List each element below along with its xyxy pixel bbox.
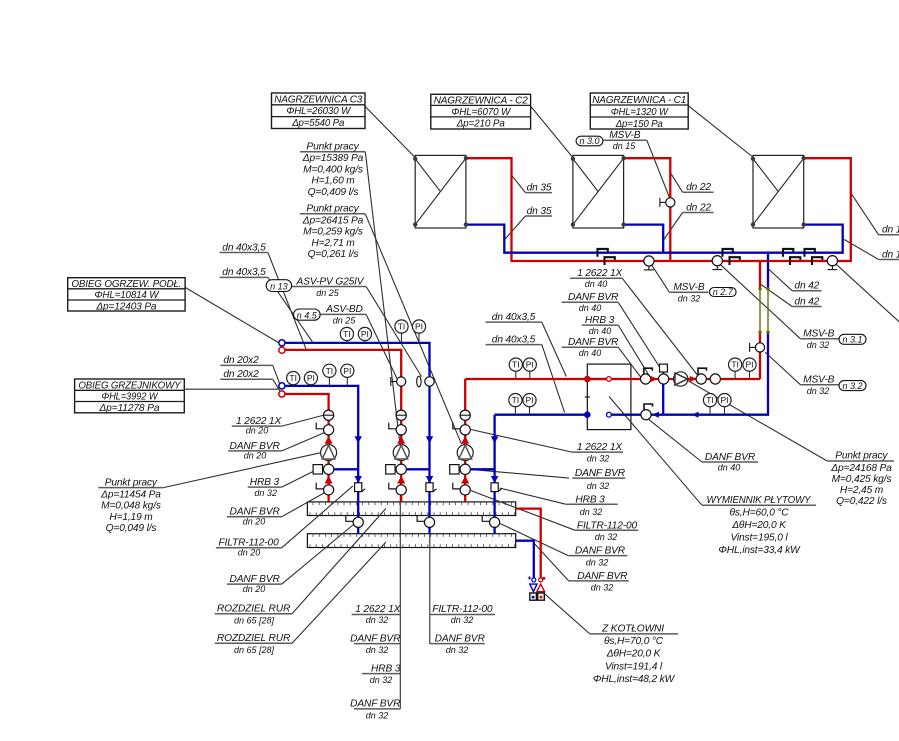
- svg-text:ASV-PV G25IV: ASV-PV G25IV: [296, 276, 365, 287]
- svg-text:DANF BVR: DANF BVR: [575, 546, 626, 557]
- svg-text:Vinst=195,0 l: Vinst=195,0 l: [730, 532, 788, 543]
- svg-text:DANF BVR: DANF BVR: [568, 292, 619, 303]
- svg-text:M=0,425 kg/s: M=0,425 kg/s: [832, 474, 892, 485]
- svg-text:ΦHL=6070 W: ΦHL=6070 W: [451, 107, 511, 118]
- svg-text:dn 40: dn 40: [585, 279, 608, 289]
- svg-text:Δp=26415 Pa: Δp=26415 Pa: [302, 215, 364, 226]
- svg-text:HRB 3: HRB 3: [575, 494, 605, 505]
- svg-text:n 3.0: n 3.0: [579, 136, 599, 146]
- svg-text:dn 20x2: dn 20x2: [223, 355, 259, 366]
- svg-text:dn 32: dn 32: [586, 558, 609, 568]
- svg-text:HRB 3: HRB 3: [250, 477, 280, 488]
- svg-text:dn 32: dn 32: [678, 293, 701, 303]
- svg-text:dn 20: dn 20: [243, 517, 266, 527]
- svg-text:dn 22: dn 22: [686, 202, 711, 213]
- svg-text:HRB 3: HRB 3: [371, 663, 401, 674]
- svg-text:dn 20: dn 20: [246, 426, 269, 436]
- svg-text:dn 40: dn 40: [718, 463, 741, 473]
- svg-text:Q=0,261 l/s: Q=0,261 l/s: [308, 249, 359, 260]
- svg-text:dn 32: dn 32: [366, 615, 389, 625]
- svg-text:dn 32: dn 32: [254, 488, 277, 498]
- svg-text:Δp=5540 Pa: Δp=5540 Pa: [291, 118, 344, 129]
- svg-text:DANF BVR: DANF BVR: [577, 571, 628, 582]
- svg-text:M=0,400 kg/s: M=0,400 kg/s: [303, 164, 363, 175]
- svg-text:Vinst=191,4 l: Vinst=191,4 l: [605, 661, 663, 672]
- svg-text:ΔθH=20,0 K: ΔθH=20,0 K: [606, 649, 662, 660]
- svg-text:M=0,259 kg/s: M=0,259 kg/s: [303, 227, 363, 238]
- svg-text:Δp=150 Pa: Δp=150 Pa: [615, 119, 663, 130]
- svg-text:ΦHL,inst=33,4 kW: ΦHL,inst=33,4 kW: [718, 545, 801, 556]
- svg-text:dn 20: dn 20: [243, 584, 266, 594]
- svg-text:Punkt pracy: Punkt pracy: [306, 204, 359, 215]
- svg-text:dn 32: dn 32: [591, 583, 614, 593]
- svg-text:dn 15: dn 15: [613, 141, 637, 151]
- svg-text:n 2.7: n 2.7: [713, 287, 734, 297]
- svg-text:FILTR-112-00: FILTR-112-00: [432, 604, 493, 615]
- svg-text:dn 32: dn 32: [807, 386, 830, 396]
- svg-text:dn 22: dn 22: [686, 182, 711, 193]
- svg-text:Δp=24168 Pa: Δp=24168 Pa: [830, 463, 892, 474]
- svg-text:dn 25: dn 25: [316, 288, 340, 298]
- svg-text:Δp=12403 Pa: Δp=12403 Pa: [95, 301, 156, 312]
- svg-text:dn 40: dn 40: [589, 326, 612, 336]
- svg-text:dn 42: dn 42: [794, 296, 819, 307]
- svg-text:ΦHL=26030 W: ΦHL=26030 W: [286, 106, 351, 117]
- svg-text:Z KOTŁOWNI: Z KOTŁOWNI: [601, 624, 664, 635]
- svg-text:MSV-B: MSV-B: [803, 329, 834, 340]
- svg-text:dn 32: dn 32: [451, 615, 474, 625]
- svg-text:dn 65 [28]: dn 65 [28]: [234, 616, 275, 626]
- svg-text:dn 40x3,5: dn 40x3,5: [492, 312, 536, 323]
- svg-text:ΦHL=3992 W: ΦHL=3992 W: [101, 392, 158, 403]
- svg-text:dn 32: dn 32: [370, 675, 393, 685]
- svg-text:dn 40x3,5: dn 40x3,5: [222, 267, 266, 278]
- svg-text:θs,H=70,0 °C: θs,H=70,0 °C: [604, 636, 664, 647]
- svg-text:DANF BVR: DANF BVR: [575, 468, 626, 479]
- svg-text:Punkt pracy: Punkt pracy: [306, 142, 359, 153]
- svg-text:ΦHL=1320 W: ΦHL=1320 W: [611, 107, 669, 118]
- svg-text:Punkt pracy: Punkt pracy: [105, 477, 158, 488]
- svg-text:dn 35: dn 35: [527, 206, 552, 217]
- svg-text:Punkt pracy: Punkt pracy: [835, 450, 888, 461]
- svg-text:dn 42: dn 42: [794, 281, 819, 292]
- svg-text:dn 32: dn 32: [366, 710, 389, 720]
- svg-text:MSV-B: MSV-B: [803, 375, 834, 386]
- svg-text:FILTR-112-00: FILTR-112-00: [577, 520, 638, 531]
- svg-text:n 13: n 13: [270, 281, 288, 291]
- svg-text:HRB 3: HRB 3: [585, 315, 615, 326]
- svg-text:Q=0,422 l/s: Q=0,422 l/s: [836, 496, 887, 507]
- svg-text:ROZDZIEL RUR: ROZDZIEL RUR: [217, 633, 291, 644]
- svg-text:ΦHL,inst=48,2 kW: ΦHL,inst=48,2 kW: [593, 674, 676, 685]
- svg-text:M=0,048 kg/s: M=0,048 kg/s: [101, 501, 161, 512]
- svg-text:Δp=210 Pa: Δp=210 Pa: [456, 119, 505, 130]
- svg-text:θs,H=60,0 °C: θs,H=60,0 °C: [729, 507, 789, 518]
- svg-text:dn 20x2: dn 20x2: [223, 369, 259, 380]
- svg-text:dn 25: dn 25: [333, 316, 357, 326]
- svg-text:dn 32: dn 32: [595, 532, 618, 542]
- svg-text:dn 15: dn 15: [882, 249, 899, 260]
- svg-text:OBIEG GRZEJNIKOWY: OBIEG GRZEJNIKOWY: [78, 381, 181, 392]
- svg-text:n 4.5: n 4.5: [297, 310, 318, 320]
- svg-text:DANF BVR: DANF BVR: [350, 633, 401, 644]
- svg-text:dn 40: dn 40: [579, 348, 602, 358]
- svg-text:ΦHL=10814 W: ΦHL=10814 W: [94, 290, 159, 301]
- svg-text:H=1,60 m: H=1,60 m: [311, 176, 355, 187]
- svg-text:Δp=11454 Pa: Δp=11454 Pa: [100, 489, 161, 500]
- svg-text:dn 32: dn 32: [446, 645, 469, 655]
- svg-text:ROZDZIEL RUR: ROZDZIEL RUR: [217, 604, 291, 615]
- svg-text:ASV-BD: ASV-BD: [325, 304, 363, 315]
- svg-text:H=2,45 m: H=2,45 m: [840, 485, 884, 496]
- svg-text:dn 35: dn 35: [527, 182, 552, 193]
- svg-text:dn 20: dn 20: [238, 548, 261, 558]
- svg-text:1 2622 1X: 1 2622 1X: [355, 604, 401, 615]
- svg-text:NAGRZEWNICA - C1: NAGRZEWNICA - C1: [592, 95, 686, 106]
- svg-text:DANF BVR: DANF BVR: [435, 633, 486, 644]
- svg-text:dn 40: dn 40: [579, 303, 602, 313]
- svg-text:Δp=11278 Pa: Δp=11278 Pa: [98, 403, 159, 414]
- svg-text:Q=0,049 l/s: Q=0,049 l/s: [106, 523, 157, 534]
- svg-text:NAGRZEWNICA - C2: NAGRZEWNICA - C2: [434, 95, 528, 106]
- svg-text:dn 32: dn 32: [587, 454, 610, 464]
- svg-text:DANF BVR: DANF BVR: [568, 337, 619, 348]
- svg-text:dn 20: dn 20: [244, 451, 267, 461]
- svg-text:1 2622 1X: 1 2622 1X: [577, 268, 623, 279]
- svg-text:Δp=15389 Pa: Δp=15389 Pa: [302, 153, 364, 164]
- svg-text:n 3.1: n 3.1: [842, 335, 862, 345]
- svg-text:NAGRZEWNICA C3: NAGRZEWNICA C3: [274, 94, 362, 105]
- svg-text:H=2,71 m: H=2,71 m: [311, 238, 355, 249]
- svg-text:dn 32: dn 32: [366, 645, 389, 655]
- svg-text:dn 65 [28]: dn 65 [28]: [234, 645, 275, 655]
- svg-text:dn 40x3,5: dn 40x3,5: [222, 242, 266, 253]
- svg-text:n 3.2: n 3.2: [842, 381, 862, 391]
- svg-text:1 2622 1X: 1 2622 1X: [577, 442, 623, 453]
- svg-text:MSV-B: MSV-B: [673, 282, 704, 293]
- svg-text:MSV-B: MSV-B: [609, 130, 640, 141]
- svg-text:DANF BVR: DANF BVR: [705, 452, 756, 463]
- svg-text:dn 32: dn 32: [587, 481, 610, 491]
- svg-text:dn 32: dn 32: [807, 340, 830, 350]
- svg-text:ΔθH=20,0 K: ΔθH=20,0 K: [731, 520, 787, 531]
- svg-text:WYMIENNIK PŁYTOWY: WYMIENNIK PŁYTOWY: [707, 495, 812, 506]
- svg-text:dn 15: dn 15: [882, 225, 899, 236]
- svg-text:H=1,19 m: H=1,19 m: [109, 512, 153, 523]
- svg-text:dn 40x3,5: dn 40x3,5: [492, 334, 536, 345]
- svg-text:Q=0,409 l/s: Q=0,409 l/s: [308, 187, 359, 198]
- svg-text:OBIEG OGRZEW. PODŁ.: OBIEG OGRZEW. PODŁ.: [71, 279, 181, 290]
- svg-text:DANF BVR: DANF BVR: [350, 699, 401, 710]
- svg-text:dn 32: dn 32: [580, 507, 603, 517]
